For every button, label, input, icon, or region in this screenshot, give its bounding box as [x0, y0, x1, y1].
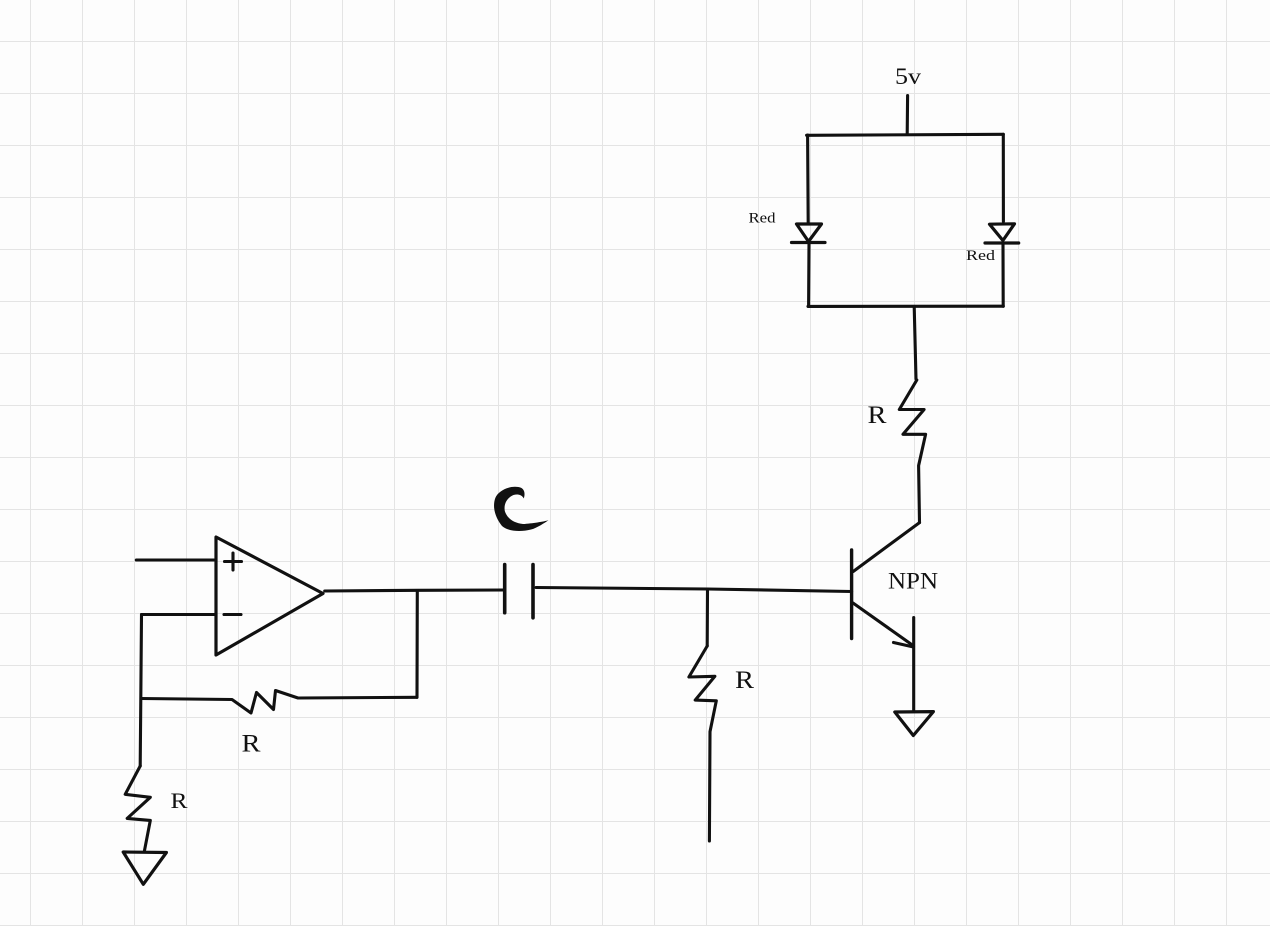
svg-text:Red: Red — [966, 248, 996, 264]
svg-text:R: R — [868, 402, 887, 429]
svg-text:R: R — [171, 788, 188, 813]
svg-text:R: R — [735, 667, 754, 694]
svg-text:R: R — [242, 731, 261, 758]
svg-text:NPN: NPN — [888, 569, 938, 594]
svg-text:Red: Red — [749, 211, 777, 227]
svg-text:5v: 5v — [895, 64, 921, 90]
